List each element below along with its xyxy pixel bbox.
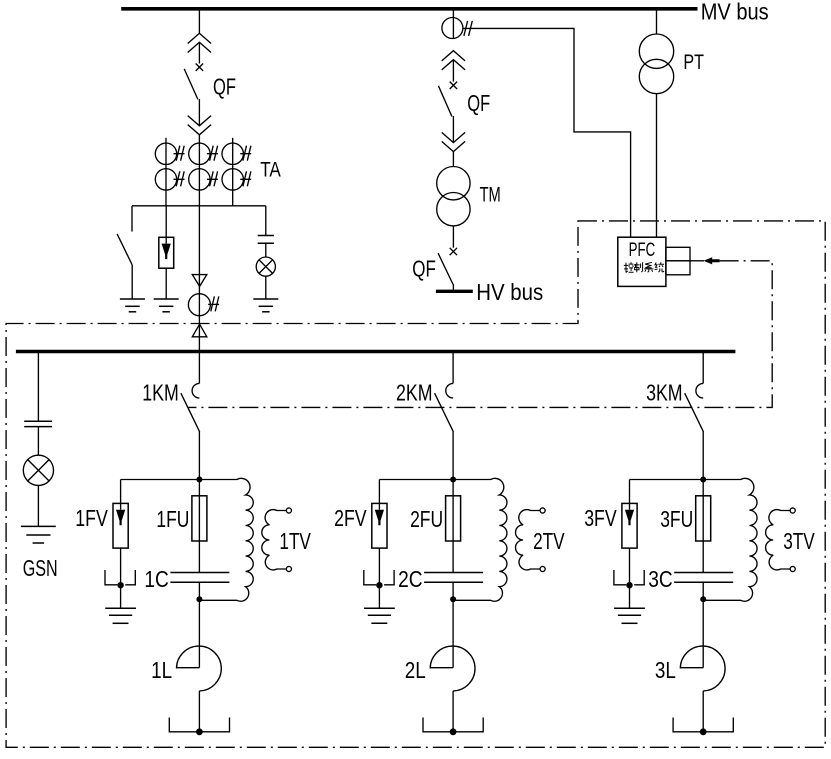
svg-text:QF: QF	[467, 90, 490, 116]
GSN discharge lamp	[23, 455, 53, 485]
secondary terminal top	[540, 508, 545, 513]
wire to transformer TM	[452, 152, 454, 167]
node dot	[196, 477, 202, 483]
wire 3KM to node	[702, 432, 704, 480]
feeder drawout triangle lower	[192, 324, 207, 337]
svg-text:3TV: 3TV	[783, 528, 815, 554]
node dot	[450, 596, 456, 602]
svg-text:TA: TA	[260, 158, 281, 181]
breaker QF blade	[438, 86, 452, 117]
drawout contact lower	[188, 116, 211, 126]
capacitor bank bus	[16, 350, 736, 353]
transformer 2TV primary coil	[453, 478, 507, 601]
contactor 3KM arc	[696, 383, 703, 398]
reactor 3L	[680, 667, 703, 669]
coupling capacitor branch	[265, 206, 267, 236]
wire	[452, 691, 454, 732]
ground (3FV)	[614, 607, 645, 609]
feeder drawout triangle upper	[192, 275, 207, 287]
wire node to capacitor	[198, 480, 200, 573]
junction dot	[626, 582, 632, 588]
transformer 1TV secondary coil	[262, 510, 286, 570]
arrester 3FV	[622, 503, 637, 548]
svg-text:PT: PT	[683, 51, 704, 74]
ground	[253, 298, 278, 300]
wire MV bus to CT	[452, 9, 454, 39]
junction dot	[117, 582, 123, 588]
CT secondary mark	[243, 171, 247, 186]
wire TA column	[232, 138, 234, 206]
star point dot	[700, 728, 707, 735]
svg-text:1FU: 1FU	[156, 506, 189, 532]
breaker QF contact x	[450, 82, 457, 89]
star point bracket	[423, 718, 483, 732]
wire TM to QF	[452, 226, 454, 248]
CT secondary mark	[210, 146, 214, 161]
CT winding circle	[189, 169, 210, 190]
indicator lamp	[256, 257, 275, 276]
metering CT circle	[442, 18, 463, 39]
voltage transformer PT winding 1	[639, 34, 673, 68]
svg-text:QF: QF	[412, 255, 436, 281]
svg-text:3FV: 3FV	[584, 505, 617, 531]
CT slashes	[464, 21, 468, 36]
svg-text:2C: 2C	[398, 566, 423, 592]
wire 1KM to node	[198, 432, 200, 480]
GSN branch wire	[37, 352, 39, 422]
secondary terminal top	[286, 508, 291, 513]
wire node to capacitor	[702, 480, 704, 573]
spark gap bracket right	[634, 570, 644, 585]
svg-text:2FV: 2FV	[334, 505, 367, 531]
rail wire to 3FV	[630, 479, 704, 481]
svg-text:PFC: PFC	[629, 240, 656, 261]
node dot	[700, 596, 706, 602]
wire	[452, 284, 454, 291]
HV bus	[436, 290, 473, 293]
wire	[198, 691, 200, 732]
svg-text:3KM: 3KM	[646, 380, 683, 406]
control output wire	[690, 260, 704, 262]
PFC terminal block lower	[666, 261, 690, 275]
cubicle boundary (dash-dot)	[6, 221, 825, 747]
capacitor plates	[258, 235, 274, 237]
CT secondary mark	[210, 171, 214, 186]
control signal arrow	[704, 257, 720, 264]
wire	[265, 276, 267, 299]
star point bracket	[673, 718, 733, 732]
svg-text:3C: 3C	[648, 566, 673, 592]
surge arrester (TA panel)	[165, 206, 167, 238]
feeder CT circle	[188, 294, 210, 316]
ground	[154, 298, 179, 300]
svg-text:2L: 2L	[405, 657, 426, 683]
ground	[120, 298, 145, 300]
wire	[452, 60, 454, 82]
secondary terminal bottom	[286, 566, 291, 571]
wire	[120, 548, 122, 585]
node dot	[196, 596, 202, 602]
wire	[198, 582, 200, 599]
CT winding circle	[189, 143, 210, 164]
svg-text:1C: 1C	[144, 566, 169, 592]
control line to contactors (dash-dot)	[188, 261, 772, 408]
breaker QF contact x	[196, 64, 203, 71]
svg-text:1TV: 1TV	[279, 528, 311, 554]
GSN capacitor plates	[24, 420, 52, 422]
CT winding circle	[155, 169, 176, 190]
arrester 2FV lead	[378, 480, 380, 504]
CT secondary mark	[211, 296, 215, 311]
wire	[165, 268, 167, 299]
node dot	[700, 477, 706, 483]
star point dot	[196, 728, 203, 735]
drawout contact upper (breaker QF1)	[188, 33, 211, 43]
PFC control system box U1	[618, 237, 666, 286]
ground (GSN)	[21, 525, 56, 527]
earthing switch blade	[117, 234, 132, 265]
star point bracket	[169, 718, 229, 732]
wire	[452, 582, 454, 599]
arrester 2FV	[372, 503, 387, 548]
wire	[120, 585, 122, 608]
contactor 2KM arc	[446, 383, 453, 398]
contactor 1KM blade	[181, 393, 200, 432]
CT secondary mark	[176, 171, 180, 186]
wire to reactor 1L	[198, 599, 200, 668]
node dot	[450, 477, 456, 483]
earthing switch branch	[131, 206, 133, 232]
svg-text:TM: TM	[480, 183, 501, 206]
spark gap bracket left	[105, 570, 117, 585]
arrester 1FV lead	[120, 480, 122, 504]
rail wire to 1FV	[121, 479, 200, 481]
tap wire CT to PFC	[463, 28, 631, 237]
fuse 3FU	[696, 496, 711, 541]
capacitor 3C plates	[674, 572, 733, 574]
wire to reactor 2L	[452, 599, 454, 668]
spark gap bracket left	[614, 570, 626, 585]
spark gap bracket left	[364, 570, 376, 585]
node rail below TA	[132, 205, 266, 207]
svg-text:2FU: 2FU	[410, 506, 443, 532]
MV bus	[121, 7, 697, 11]
wire	[702, 582, 704, 599]
transformer TM winding 1	[437, 167, 470, 200]
svg-text:2TV: 2TV	[533, 528, 565, 554]
junction dot	[376, 582, 382, 588]
wire QF to TA	[198, 135, 200, 206]
contactor 2KM blade	[435, 393, 454, 432]
spark gap bracket right	[125, 570, 135, 585]
svg-text:3FU: 3FU	[660, 506, 693, 532]
reactor 2L	[430, 667, 453, 669]
transformer TM winding 2	[437, 193, 470, 226]
secondary terminal top	[790, 508, 795, 513]
arrester 1FV	[113, 503, 128, 548]
ground (2FV)	[364, 607, 395, 609]
svg-text:GSN: GSN	[23, 555, 58, 581]
svg-text:1FV: 1FV	[75, 505, 108, 531]
CT winding circle	[222, 143, 243, 164]
contactor 3KM wire from bus	[702, 352, 704, 384]
CT winding circle	[222, 169, 243, 190]
secondary terminal bottom	[540, 566, 545, 571]
CT secondary mark	[243, 146, 247, 161]
wire	[629, 585, 631, 608]
disconnector QF contact x	[450, 248, 457, 255]
wire	[378, 585, 380, 608]
wire TA column	[165, 138, 167, 206]
wire	[452, 116, 454, 143]
rail wire to 2FV	[379, 479, 453, 481]
svg-text:QF: QF	[213, 74, 236, 100]
capacitor 2C plates	[424, 572, 483, 574]
fuse 1FU	[192, 496, 207, 541]
wire	[131, 265, 133, 299]
wire	[265, 243, 267, 257]
wire	[198, 42, 200, 63]
wire PT to PFC	[656, 94, 658, 238]
breaker QF blade	[184, 69, 198, 100]
wire node to capacitor	[452, 480, 454, 573]
transformer 2TV secondary coil	[516, 510, 541, 570]
disconnector QF blade	[438, 253, 453, 284]
ground (1FV)	[105, 607, 136, 609]
star point dot	[450, 728, 457, 735]
contactor 2KM wire from bus	[452, 352, 454, 384]
drawout contact lower	[442, 132, 465, 142]
wire	[37, 485, 39, 526]
voltage transformer PT winding 2	[639, 59, 673, 93]
wire 2KM to node	[452, 432, 454, 480]
PFC terminal block upper	[666, 247, 690, 260]
transformer 3TV secondary coil	[766, 510, 790, 570]
wire MV bus to PT	[656, 9, 658, 35]
transformer 3TV primary coil	[703, 478, 757, 601]
svg-text:MV bus: MV bus	[701, 0, 769, 24]
wire	[702, 691, 704, 732]
svg-text:2KM: 2KM	[396, 380, 433, 406]
wire MV bus to QF drawout	[198, 9, 200, 34]
wire TA to feeder elements	[198, 206, 200, 352]
contactor 1KM arc	[192, 383, 199, 398]
contactor 3KM blade	[685, 393, 704, 432]
CT winding circle	[155, 143, 176, 164]
svg-text:1KM: 1KM	[142, 380, 179, 406]
wire to reactor 3L	[702, 599, 704, 668]
wire	[629, 548, 631, 585]
capacitor 1C plates	[170, 572, 229, 574]
svg-text:3L: 3L	[655, 657, 676, 683]
spark gap bracket right	[384, 570, 394, 585]
transformer 1TV primary coil	[199, 478, 253, 601]
svg-text:1L: 1L	[151, 657, 172, 683]
secondary terminal bottom	[790, 566, 795, 571]
drawout contact upper (breaker QF2)	[442, 51, 465, 61]
label 控制系统 (drawn glyphs)	[624, 262, 664, 272]
arrester 3FV lead	[629, 480, 631, 504]
contactor 1KM wire from bus	[198, 352, 200, 384]
wire	[198, 99, 200, 126]
fuse 2FU	[446, 496, 461, 541]
svg-text:HV bus: HV bus	[476, 279, 543, 305]
CT secondary mark	[176, 146, 180, 161]
wire	[378, 548, 380, 585]
wire	[37, 427, 39, 456]
reactor 1L	[177, 667, 200, 669]
